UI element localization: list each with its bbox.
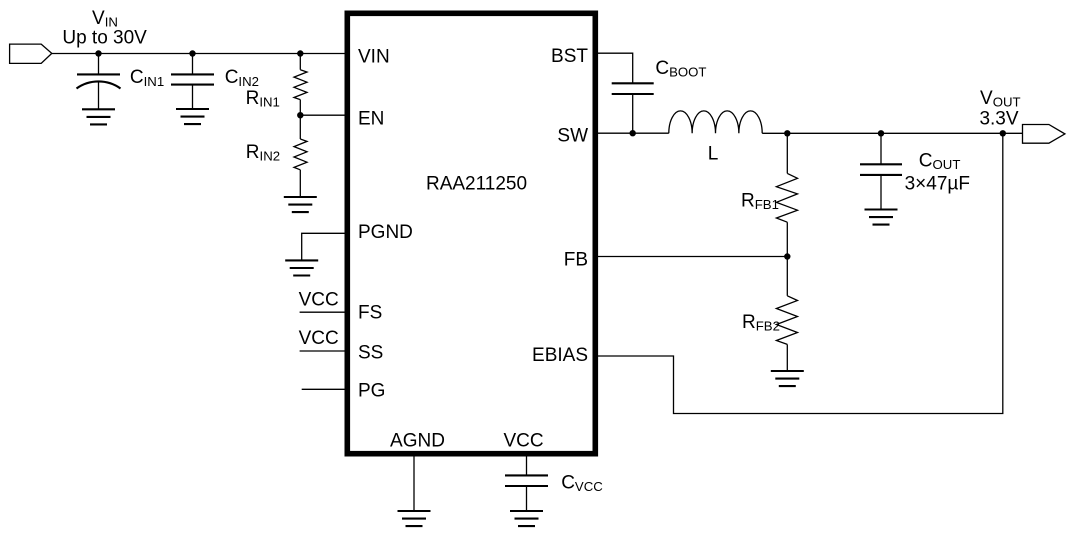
node L to RFB1 <box>784 130 790 136</box>
ground under RIN2 <box>284 197 317 212</box>
node EN divider <box>297 112 303 118</box>
VCC stub at FS <box>299 290 347 313</box>
svg-text:PG: PG <box>358 381 385 402</box>
capacitor CIN1 (polarized) <box>77 54 121 110</box>
resistor RFB2 <box>776 257 797 372</box>
inductor L <box>669 111 762 133</box>
node COUT tap <box>878 130 884 136</box>
ground under CVCC <box>510 511 543 526</box>
svg-text:AGND: AGND <box>390 431 445 452</box>
wire FB <box>596 256 788 258</box>
svg-text:BST: BST <box>551 46 588 67</box>
wire VCC pin <box>526 453 528 475</box>
IC U1 RAA211250 body <box>347 13 595 453</box>
wire EBIAS <box>596 133 1003 413</box>
resistor RIN2 <box>294 115 307 197</box>
svg-text:L: L <box>708 143 719 164</box>
input connector VIN tag <box>10 44 52 63</box>
svg-text:VCC: VCC <box>299 290 339 311</box>
node VOUT EBIAS tap <box>1000 130 1006 136</box>
wire BST <box>596 53 633 83</box>
wire EN <box>300 114 347 116</box>
node RIN1 tap <box>297 50 303 56</box>
capacitor CIN2 <box>171 54 214 110</box>
svg-text:PGND: PGND <box>358 222 413 243</box>
svg-text:VIN: VIN <box>358 47 390 68</box>
wire SW <box>596 132 669 134</box>
capacitor CBOOT <box>612 83 654 133</box>
ground under CIN2 <box>176 109 209 124</box>
node CIN2 tap <box>189 50 195 56</box>
resistor RIN1 <box>294 54 307 116</box>
wire SW output net <box>762 132 1023 134</box>
svg-text:FB: FB <box>564 250 588 271</box>
node SW CBOOT junction <box>630 130 636 136</box>
ground at AGND <box>398 511 431 526</box>
svg-text:SS: SS <box>358 343 383 364</box>
VCC stub at SS <box>299 328 347 351</box>
ground at PGND <box>285 260 318 275</box>
svg-text:EN: EN <box>358 109 384 130</box>
svg-text:FS: FS <box>358 303 382 324</box>
wire AGND <box>413 453 415 511</box>
svg-text:RAA211250: RAA211250 <box>426 174 527 195</box>
label VIN supply <box>62 8 147 49</box>
node FB <box>784 253 790 259</box>
svg-text:SW: SW <box>557 126 588 147</box>
wire input net <box>52 53 347 55</box>
wire PGND <box>302 233 347 260</box>
svg-text:3×47µF: 3×47µF <box>905 174 970 195</box>
ground under RFB2 <box>771 371 804 386</box>
wire PG stub <box>302 388 347 390</box>
label VOUT supply <box>979 88 1020 130</box>
svg-text:VCC: VCC <box>503 431 543 452</box>
capacitor COUT <box>860 133 902 209</box>
output connector VOUT tag <box>1023 125 1065 144</box>
svg-text:3.3V: 3.3V <box>979 109 1018 130</box>
label COUT <box>905 151 970 195</box>
svg-text:VCC: VCC <box>299 328 339 349</box>
svg-text:Up to 30V: Up to 30V <box>62 28 147 49</box>
resistor RFB1 <box>776 133 797 256</box>
svg-text:EBIAS: EBIAS <box>532 345 588 366</box>
capacitor CVCC <box>505 475 548 511</box>
ground under COUT <box>865 210 898 225</box>
node CIN1 tap <box>95 50 101 56</box>
ground under CIN1 <box>82 109 115 124</box>
